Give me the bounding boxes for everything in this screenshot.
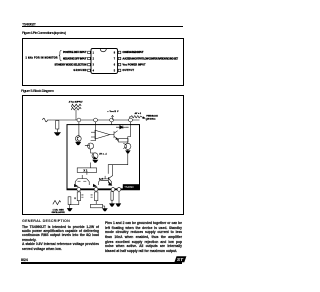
- figure 5 caption: [0, 80, 207, 96]
- chip inner box: [67, 125, 140, 190]
- IC notch: [100, 49, 106, 52]
- svg-text:AV = 1: AV = 1: [135, 112, 142, 115]
- output pair A (crown): [75, 175, 89, 185]
- svg-text:TS4990: TS4990: [124, 185, 134, 189]
- svg-text:R: R: [75, 198, 77, 200]
- main input wire: [50, 119, 140, 121]
- svg-text:OSCILLATOR: OSCILLATOR: [52, 211, 66, 214]
- ground (P4b) blob: [116, 204, 121, 207]
- ground (Q5a) blob: [93, 160, 98, 163]
- transistor Q4: [125, 143, 131, 149]
- pin 3 stub: [88, 63, 91, 65]
- svg-text:ST: ST: [177, 257, 184, 263]
- pin 2 stub: [88, 57, 91, 59]
- bottom pin circles: [77, 187, 81, 191]
- chip bottom edge heavy: [67, 188, 140, 190]
- ground (Q4) blob: [126, 151, 130, 154]
- ground (bottom right of horiz R) blob: [103, 209, 108, 212]
- pin 6 stub: [118, 63, 121, 65]
- description heading: [22, 219, 70, 223]
- footer rule: [21, 262, 182, 264]
- left column paragraph 1: [22, 225, 99, 243]
- brace grouping pins 1-2: [59, 50, 62, 60]
- block diagram: [0, 0, 207, 292]
- svg-text:A Vcc SUPPLY: A Vcc SUPPLY: [69, 100, 84, 103]
- diode D1: [116, 126, 129, 128]
- header part number: [0, 0, 207, 40]
- header rule: [22, 26, 183, 27]
- input resistor Rin: [56, 121, 59, 130]
- load resistor RL1: [77, 192, 80, 201]
- wire RL1 to left resistor: [70, 201, 79, 205]
- transistor Q2 (bar): [110, 131, 118, 141]
- chip name black box: [123, 184, 140, 189]
- pin circle P1: [77, 118, 81, 122]
- ground (Q1) blob: [76, 142, 81, 145]
- bypass cap under P3b: [111, 192, 113, 201]
- pin circle P3: [110, 118, 114, 122]
- wire RL2 down: [95, 201, 97, 205]
- pin 8 stub: [118, 51, 121, 53]
- output pair B (crown): [99, 176, 112, 185]
- pin 1 stub: [88, 51, 91, 53]
- ground (far left bottom) blob: [67, 208, 72, 211]
- ground (input): [54, 133, 60, 136]
- feedback resistor (bumps): [130, 116, 143, 119]
- oscillator squiggle: [53, 201, 61, 205]
- op-amp U2: [95, 130, 110, 139]
- gain block X: [77, 168, 96, 173]
- svg-text:+ Vcc/2 V: + Vcc/2 V: [107, 111, 119, 113]
- transistor Q1: [75, 136, 81, 142]
- svg-text:FEEDBACK: FEEDBACK: [146, 114, 158, 117]
- feedback arrow end: [143, 117, 145, 119]
- figure 4 box: [22, 38, 183, 87]
- pin circle P2: [94, 118, 98, 122]
- svg-text:150 kOhm: 150 kOhm: [146, 118, 155, 120]
- internal wires: [87, 150, 128, 175]
- crown emitter arrows: [74, 184, 78, 186]
- svg-text:2x1: 2x1: [99, 179, 103, 181]
- pin 5 stub: [118, 69, 121, 71]
- wire: supply drop: [75, 110, 77, 120]
- IC body U1: [91, 49, 118, 74]
- ST logo: [174, 256, 187, 263]
- transistor Q5a: [92, 153, 98, 159]
- left column paragraph 2: [22, 242, 99, 251]
- pin drop wires: [79, 122, 131, 125]
- bias resistor: [119, 139, 129, 142]
- figure 5 box: [22, 95, 183, 215]
- AC source Vin: [43, 118, 51, 122]
- resistor (far left bottom): [68, 197, 71, 205]
- transistor Q3: [88, 143, 94, 149]
- load resistor RL2: [95, 192, 98, 201]
- pin connection diagram: [0, 0, 207, 292]
- +Vcc/2 arrow: [111, 115, 113, 120]
- transistor Q5: [101, 165, 113, 184]
- svg-text:X 1: X 1: [84, 169, 88, 173]
- right column paragraph: [105, 221, 182, 253]
- pin circle P4: [129, 118, 133, 122]
- svg-text:AV = -1: AV = -1: [99, 153, 107, 156]
- footer page number 8/24: [21, 258, 28, 262]
- pin 7 stub: [118, 57, 121, 59]
- pin 4 stub: [88, 69, 91, 71]
- ground (P3b) blob: [110, 204, 115, 207]
- resistor (horizontal bottom): [91, 204, 103, 208]
- supply resistor (vertical zigzag): [71, 104, 81, 110]
